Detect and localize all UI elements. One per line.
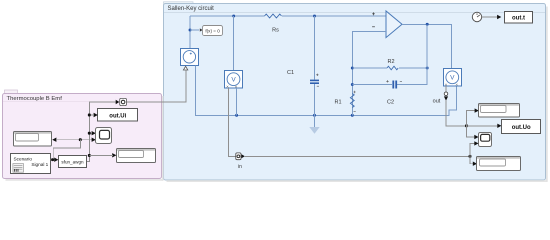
svg-text:out.Ui: out.Ui xyxy=(109,113,126,119)
wire sensor1 reference leg xyxy=(236,88,238,115)
arrow out.Uo xyxy=(497,124,501,128)
svg-text:Signal 1: Signal 1 xyxy=(31,162,48,167)
wire out.Ui stub xyxy=(89,114,94,116)
block out.Uo xyxy=(502,120,541,134)
port triangle source signal input xyxy=(183,66,187,70)
wire B clean to display1 and scope xyxy=(56,139,92,141)
port marks sensor1 xyxy=(227,86,237,88)
svg-text:Rs: Rs xyxy=(272,28,279,34)
wire source minus to bottom rail and bottom rail to sensor2 xyxy=(196,66,457,116)
svg-text:V: V xyxy=(450,75,455,82)
port arrow sensor2 output xyxy=(444,86,448,101)
svg-text:C1: C1 xyxy=(287,70,294,76)
resistor R2 xyxy=(387,66,398,70)
solver configuration f(x)=0 xyxy=(203,26,223,36)
block out.Ui xyxy=(98,109,138,122)
svg-text:f(x) = 0: f(x) = 0 xyxy=(205,28,220,33)
wire to display3 xyxy=(467,111,476,126)
wire to solver xyxy=(190,29,199,31)
voltage source U1 xyxy=(181,49,199,66)
svg-text:out.t: out.t xyxy=(512,16,525,22)
arrow out.t xyxy=(497,15,501,19)
node noisy scope xyxy=(88,132,91,135)
op-amp minus mark xyxy=(372,26,375,28)
node in hub xyxy=(469,155,472,158)
clock xyxy=(472,12,481,21)
wire sensor1 output signal xyxy=(229,88,236,156)
wire op-amp output xyxy=(402,24,452,68)
display D2 xyxy=(117,149,156,163)
resistor Rs xyxy=(265,14,282,18)
svg-text:out: out xyxy=(433,99,441,105)
svg-text:sfun_awgn: sfun_awgn xyxy=(61,160,84,165)
svg-text:V: V xyxy=(231,77,236,84)
arrow display1 xyxy=(52,138,56,142)
node noisy out.Ui xyxy=(88,114,91,117)
resistor R1 xyxy=(350,91,355,112)
svg-text:out.Uo: out.Uo xyxy=(512,125,531,131)
arrow display2 xyxy=(112,153,116,157)
wire to scope2 in2 xyxy=(470,143,475,156)
svg-text:Scenario: Scenario xyxy=(14,157,33,162)
node R2 left xyxy=(351,67,354,70)
wire in signal horizontal xyxy=(245,155,470,157)
capacitor C2 xyxy=(386,80,402,88)
svg-text:C2: C2 xyxy=(387,99,394,105)
node rail R1 xyxy=(351,114,354,117)
node C2 left xyxy=(351,83,354,86)
wire op-amp minus input xyxy=(352,32,386,116)
node top rail sensor1 xyxy=(232,15,235,18)
arrow sfun input xyxy=(54,158,58,162)
wire clean from scenario xyxy=(53,140,80,160)
port marks sensor2 xyxy=(445,84,458,86)
svg-text:R2: R2 xyxy=(387,59,394,65)
node rail sensor1 xyxy=(235,114,238,117)
shadow blue area xyxy=(167,180,548,182)
node solver branch xyxy=(189,29,192,32)
block out.t xyxy=(505,12,533,24)
wire to out.Uo xyxy=(467,125,498,127)
arrow scope1 in1 xyxy=(92,131,96,135)
scope S1 xyxy=(96,128,112,144)
node top rail C1 xyxy=(313,15,316,18)
wire source top stub xyxy=(189,16,191,48)
voltage sensor V1 xyxy=(225,71,243,89)
block Scenario signal editor xyxy=(11,154,51,174)
op-amp plus mark xyxy=(372,12,375,15)
wire to scope2 in1 xyxy=(467,126,475,137)
capacitor C1 xyxy=(310,16,319,115)
node out hub xyxy=(465,124,468,127)
node output feedback xyxy=(426,23,429,26)
area Sallen-Key circuit xyxy=(164,2,546,180)
op-amp U2 xyxy=(386,11,402,38)
arrow display3 xyxy=(475,108,479,112)
arrow marker pink xyxy=(116,100,120,104)
arrow display4 xyxy=(473,162,477,166)
wire display2 stub xyxy=(89,154,113,156)
node R2 right xyxy=(426,67,429,70)
node clean branch xyxy=(79,138,82,141)
block sfun_awgn xyxy=(59,156,87,168)
wire control signal from pink area xyxy=(127,71,186,103)
wire to display4 xyxy=(470,156,473,163)
svg-text:R1: R1 xyxy=(334,100,341,106)
wire C2 rail xyxy=(352,68,427,85)
arrow scope1 in2 xyxy=(92,138,96,142)
ground xyxy=(309,115,319,134)
shadow pink area xyxy=(6,179,164,181)
arrow scope2 in2 xyxy=(474,141,478,145)
display D3 xyxy=(479,104,520,118)
wire scenario out xyxy=(51,159,55,161)
scope S2 xyxy=(479,133,492,147)
wire clock to out.t xyxy=(482,16,498,18)
port arrow solver xyxy=(200,28,203,31)
node noisy display2 xyxy=(88,154,91,157)
port marker pink xyxy=(120,98,127,105)
svg-text:in: in xyxy=(238,164,242,170)
wire feedback drop xyxy=(426,24,428,68)
node scenario branch xyxy=(51,158,54,161)
arrow scope2 in1 xyxy=(474,135,478,139)
svg-text:Thermocouple B Emf: Thermocouple B Emf xyxy=(7,96,63,102)
port marker in xyxy=(236,153,245,160)
wire noisy to scope1 in1 xyxy=(89,132,92,134)
wire R2 rail xyxy=(352,67,427,69)
display D4 xyxy=(477,157,521,171)
voltage sensor V2 xyxy=(444,69,462,87)
node rail ground xyxy=(313,114,316,117)
display D1 xyxy=(14,132,52,147)
wire out signal xyxy=(446,100,467,126)
svg-text:Sallen-Key circuit: Sallen-Key circuit xyxy=(168,6,215,12)
wire sensor1 top stub xyxy=(233,16,235,71)
arrow out.Ui xyxy=(94,113,98,117)
wire A noisy main xyxy=(86,102,117,161)
area Thermocouple B Emf xyxy=(3,90,162,179)
wire top rail xyxy=(190,15,386,17)
